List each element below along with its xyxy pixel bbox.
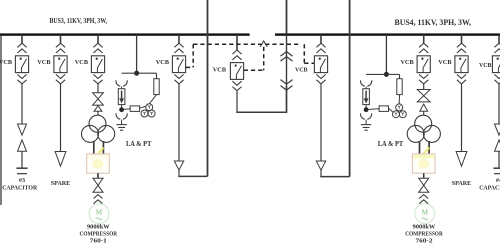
svg-text:CAPACITOR: CAPACITOR: [479, 184, 500, 191]
svg-text:9000kW: 9000kW: [87, 224, 110, 230]
label VCB (spare): [438, 59, 452, 66]
svg-text:VCB: VCB: [213, 67, 227, 74]
label VCB (capacitor 3): [0, 59, 13, 66]
wire: incoming feeder line to BUS4 (from top): [349, 0, 351, 177]
potential transformer PT (3-phase): [141, 104, 155, 117]
svg-text:LA & PT: LA & PT: [378, 140, 404, 148]
svg-text:#4: #4: [496, 177, 500, 184]
label CAPACITOR 3: [2, 184, 37, 191]
label VCB (compressor 760-1): [75, 59, 89, 66]
wire: U-link incoming BUS4: [321, 175, 350, 178]
drawout hourglass + chevrons (motor 2): [419, 173, 429, 204]
fuse F (PT primary, vertical): [154, 79, 159, 95]
svg-text:760-1: 760-1: [90, 239, 107, 245]
svg-text:BUS4, 11KV, 3PH, 3W,: BUS4, 11KV, 3PH, 3W,: [395, 18, 472, 27]
node BUS3 label: [50, 16, 108, 25]
wire + drawout arrows (capacitor 4 feeder): [495, 84, 500, 168]
wire: junction to PT leg: [137, 73, 157, 79]
svg-text:SPARE: SPARE: [452, 180, 472, 187]
wire + outgoing arrow (spare): [456, 84, 467, 166]
label SPARE: [452, 180, 472, 187]
label 760-2: [416, 239, 433, 245]
drawout link (BUS4 side of tie): [281, 34, 293, 112]
fuse cutout horns (LA top): [360, 80, 371, 86]
breaker VCB (capacitor 4 feeder): [492, 34, 500, 84]
svg-text:LA & PT: LA & PT: [126, 140, 152, 148]
wire: BUS4 bus bar 11kV: [275, 33, 500, 35]
wire: BUS3 bus bar 11kV: [0, 33, 250, 35]
ground symbol: [361, 120, 371, 131]
wire: incoming feeder line to BUS3 (from top): [207, 0, 209, 176]
label VCB (compressor 760-2): [401, 59, 415, 66]
wire: cropped feeder at left edge: [0, 35, 2, 205]
label VCB (BUS3 incoming): [156, 59, 170, 66]
svg-text:M: M: [421, 209, 428, 216]
node junction (LA&PT): [384, 72, 389, 77]
label VCB (BUS4 incoming): [295, 67, 308, 74]
svg-text:9000kW: 9000kW: [413, 224, 436, 230]
wire: U-link incoming BUS3: [179, 175, 208, 178]
wire: junction to LA leg: [122, 72, 137, 74]
fuse F (PT, horizontal): [124, 106, 145, 112]
wire + outgoing arrow (spare): [55, 84, 66, 166]
svg-text:VCB: VCB: [75, 59, 89, 66]
motor M2 (compressor): [415, 204, 435, 224]
dashed interlock: tee to tie VCB: [244, 47, 264, 70]
label VCB (bus tie): [213, 67, 227, 74]
transformer T2 (3-winding): [407, 115, 440, 142]
label SPARE: [51, 180, 71, 187]
wire: drop to LA&PT junction: [136, 34, 138, 73]
dashed interlock: to BUS4 incoming VCB: [304, 44, 314, 63]
label 9000kW (1): [87, 224, 110, 230]
fuse cutout horns (LA bottom): [116, 113, 127, 119]
breaker VCB (spare feeder): [455, 34, 468, 84]
svg-text:VCB: VCB: [295, 67, 308, 74]
svg-text:COMPRESSOR: COMPRESSOR: [405, 232, 443, 238]
breaker VCB (BUS3 incoming): [172, 34, 185, 84]
label #4: [496, 177, 500, 184]
breaker VCB (capacitor 3 feeder): [15, 34, 28, 84]
wires transformer 2 secondary: [420, 141, 430, 154]
label LA & PT: [126, 140, 152, 148]
fuse F (PT primary, vertical): [397, 79, 402, 95]
svg-text:VCB: VCB: [401, 59, 415, 66]
dashed interlock: to BUS3 incoming VCB: [186, 44, 193, 67]
label VCB (capacitor 4): [479, 62, 492, 69]
transformer T1 (3-winding): [82, 115, 115, 142]
wire: junction to LA leg: [366, 73, 386, 75]
wire + arrow (BUS3 incoming riser): [174, 84, 183, 176]
svg-text:VCB: VCB: [0, 59, 13, 66]
breaker VCB (compressor 760-2 feeder): [417, 34, 430, 84]
svg-text:VCB: VCB: [156, 59, 170, 66]
breaker VCB (bus tie): [230, 34, 243, 90]
label LA & PT: [378, 140, 404, 148]
label #3: [19, 177, 25, 184]
ground symbol: [116, 120, 126, 131]
arrowhead on interlock tee: [260, 41, 267, 47]
wire: drop to LA&PT junction: [385, 34, 387, 74]
disconnect hourglass + arrow (xfmr 2): [417, 84, 430, 115]
wire: feeder stub to BUS4 (from top): [286, 0, 288, 33]
dashed interlock: main run: [193, 43, 300, 45]
disconnect hourglass + arrow (xfmr 1): [93, 84, 104, 115]
fuse F (PT, horizontal): [369, 106, 393, 112]
svg-text:M: M: [96, 209, 103, 216]
label CAPACITOR 4: [479, 184, 500, 191]
label COMPRESSOR (1): [80, 232, 118, 238]
label COMPRESSOR (2): [405, 232, 443, 238]
svg-text:#3: #3: [19, 177, 25, 184]
svg-text:VCB: VCB: [438, 59, 452, 66]
wire: tie U-link: [237, 86, 287, 112]
motor M1 (compressor): [89, 204, 109, 224]
svg-text:CAPACITOR: CAPACITOR: [2, 184, 37, 191]
svg-text:VCB: VCB: [479, 62, 492, 69]
node junction (LA&PT): [134, 71, 139, 76]
breaker VCB (BUS4 incoming): [314, 34, 327, 84]
breaker VCB (compressor 760-1 feeder): [91, 34, 104, 84]
wire: fuse to PT: [149, 95, 156, 104]
starter box (highlighted) 2: [412, 148, 435, 174]
label 760-1: [90, 239, 107, 245]
starter box (highlighted) 1: [87, 148, 110, 174]
wire: fuse to PT: [398, 95, 400, 105]
label VCB (spare): [37, 59, 51, 66]
wire: junction to PT leg: [386, 74, 399, 78]
lightning arrester LA: [118, 87, 125, 105]
fuse cutout horns (LA bottom): [360, 113, 371, 119]
node BUS4 label: [395, 18, 472, 27]
svg-text:COMPRESSOR: COMPRESSOR: [80, 232, 118, 238]
drawout hourglass + chevrons (motor 1): [93, 173, 103, 204]
potential transformer PT (3-phase): [393, 104, 407, 118]
capacitor C3: [16, 168, 27, 174]
svg-text:BUS3, 11KV, 3PH, 3W,: BUS3, 11KV, 3PH, 3W,: [50, 16, 108, 25]
capacitor C4: [493, 168, 500, 174]
wire: tie link down: [236, 91, 238, 113]
node LA bottom junction: [364, 105, 369, 113]
svg-text:VCB: VCB: [37, 59, 51, 66]
wires transformer 1 secondary: [94, 141, 104, 154]
label 9000kW (2): [413, 224, 436, 230]
svg-text:SPARE: SPARE: [51, 180, 71, 187]
svg-text:760-2: 760-2: [416, 239, 433, 245]
fuse cutout horns (LA top): [116, 80, 127, 86]
node LA bottom junction: [119, 105, 124, 113]
breaker VCB (spare feeder): [54, 34, 67, 84]
lightning arrester LA: [363, 87, 370, 105]
wire + drawout arrows (capacitor 3 feeder): [18, 84, 27, 168]
wire + arrow (BUS4 incoming riser): [316, 84, 325, 176]
